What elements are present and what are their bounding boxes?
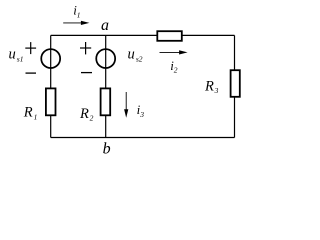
svg-text:R: R [204, 78, 214, 94]
svg-text:1: 1 [77, 11, 81, 20]
svg-text:u: u [128, 47, 135, 63]
label R3 [204, 78, 219, 95]
svg-text:s1: s1 [17, 55, 24, 64]
svg-text:2: 2 [90, 114, 94, 123]
svg-text:2: 2 [174, 66, 178, 75]
wire right branch (R3) [234, 35, 236, 137]
current arrow i3 [124, 92, 128, 118]
svg-text:u: u [9, 47, 16, 63]
svg-text:1: 1 [34, 113, 38, 122]
svg-text:R: R [79, 106, 89, 122]
resistor (unnamed, top) box [157, 31, 182, 41]
label us2 [128, 47, 143, 64]
voltage source us2 (circle) [96, 49, 115, 68]
label i2 [170, 58, 178, 75]
label us1 [9, 47, 24, 64]
svg-text:a: a [101, 17, 109, 34]
label R2 [79, 106, 94, 123]
wire bottom (node b rail) [51, 137, 235, 139]
resistor R1 (box) [46, 88, 56, 115]
current arrow i1 [63, 21, 89, 25]
svg-text:s2: s2 [136, 55, 143, 64]
resistor R2 (box) [101, 88, 111, 115]
svg-text:R: R [23, 105, 33, 121]
label R1 [23, 105, 38, 122]
polarity + of us2 [80, 42, 91, 54]
wire top (node a rail) [51, 34, 235, 36]
resistor R3 (box) [231, 70, 240, 97]
polarity - of us1 [26, 72, 37, 74]
wire left branch (us1/R1) [50, 35, 52, 137]
svg-text:3: 3 [214, 86, 219, 95]
svg-text:b: b [103, 141, 111, 158]
polarity - of us2 [81, 72, 92, 74]
label i1 [73, 3, 80, 20]
label i3 [137, 102, 145, 119]
voltage source us1 (circle) [41, 49, 60, 68]
svg-text:3: 3 [139, 110, 144, 119]
polarity + of us1 [25, 42, 36, 54]
current arrow i2 [160, 50, 188, 54]
wire middle branch (us2/R2) [105, 35, 107, 137]
